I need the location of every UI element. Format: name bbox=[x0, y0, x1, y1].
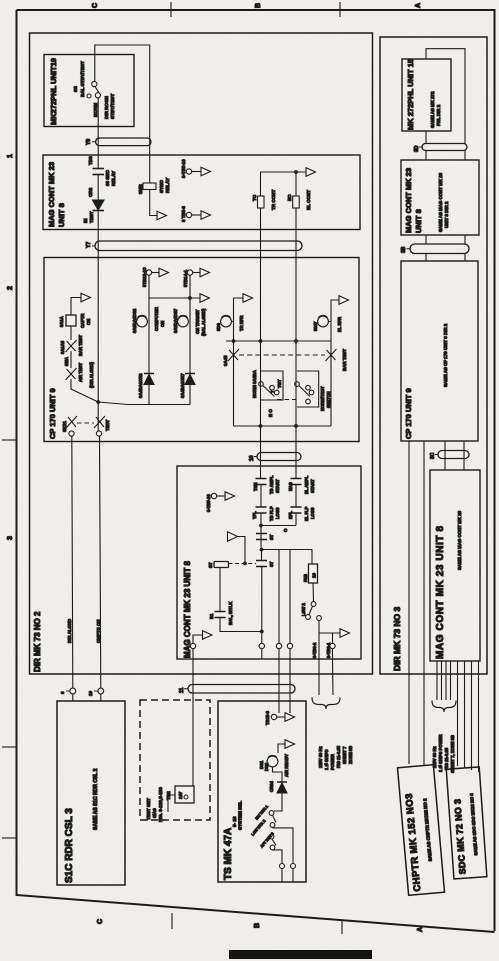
wire B1 to main bbox=[220, 618, 262, 632]
wire lamp bus 2 bbox=[226, 340, 331, 342]
connector oval 16 bbox=[257, 453, 301, 461]
svg-text:S1C RDR CSL 3: S1C RDR CSL 3 bbox=[64, 808, 75, 883]
svg-text:ON TARGET: ON TARGET bbox=[195, 309, 200, 334]
svg-text:ON: ON bbox=[160, 321, 165, 327]
connector oval 3B bbox=[410, 244, 469, 254]
svg-text:(BAL ALGND): (BAL ALGND) bbox=[201, 308, 206, 336]
switch SK21 pole 1 bbox=[66, 416, 77, 436]
svg-text:3A4BA1CR7: 3A4BA1CR7 bbox=[180, 373, 185, 398]
capacitor EFL bbox=[291, 507, 302, 513]
linkage dashed SK21 bbox=[77, 422, 94, 424]
terminal circle e + flag bbox=[190, 643, 195, 648]
svg-text:3MA: 3MA bbox=[64, 357, 69, 366]
wire EC down long bbox=[295, 208, 297, 341]
svg-text:SHEET 7, ZONE 3B: SHEET 7, ZONE 3B bbox=[450, 735, 455, 773]
wire lower bus to junction bbox=[98, 402, 190, 405]
terminal circle c bbox=[287, 643, 292, 648]
svg-text:8-TB5-10: 8-TB5-10 bbox=[206, 494, 211, 512]
flag arrow TR RFR bbox=[243, 294, 253, 303]
svg-text:3A3DA1DS7: 3A3DA1DS7 bbox=[173, 308, 178, 333]
svg-text:START: START bbox=[275, 479, 280, 493]
svg-text:3A1A: 3A1A bbox=[59, 316, 64, 327]
wire TC/EC bus bbox=[261, 172, 307, 196]
resistor TC bbox=[258, 196, 265, 208]
svg-text:(DIR ALGND): (DIR ALGND) bbox=[89, 361, 94, 388]
junction dot bus2-b bbox=[294, 339, 298, 343]
terminal circle 9 bbox=[70, 688, 76, 694]
box TS MK 47A bbox=[218, 701, 306, 882]
rotary switch NORM/TEST bbox=[295, 371, 319, 407]
junction dot TC/EC bbox=[294, 170, 298, 174]
wire flag to lamp bbox=[278, 744, 285, 753]
switch contact 3MA AIR TEST bbox=[66, 368, 77, 380]
svg-text:ST: ST bbox=[208, 562, 213, 568]
stubs into S1C box bbox=[73, 694, 101, 701]
svg-text:MK272PNL UNIT19: MK272PNL UNIT19 bbox=[49, 58, 58, 125]
svg-text:NORM: NORM bbox=[252, 385, 257, 398]
svg-text:115V 60 Hz: 115V 60 Hz bbox=[318, 746, 323, 768]
svg-text:TR CONT: TR CONT bbox=[271, 189, 276, 210]
stub circles b c to bottom bbox=[279, 649, 290, 701]
svg-text:UNIT 8: UNIT 8 bbox=[414, 209, 423, 233]
flag arrow (TC/EC bus) bbox=[306, 168, 316, 177]
dashed box TEST SET bbox=[140, 700, 210, 820]
flag arrow 8-TB5-8 bbox=[201, 211, 211, 220]
lamp 3A3DA1DS7 ON TARGET bbox=[178, 315, 189, 326]
svg-text:8-TB5-10: 8-TB5-10 bbox=[181, 159, 186, 178]
svg-text:FIG 11-3.35: FIG 11-3.35 bbox=[444, 747, 449, 770]
svg-text:3MR: 3MR bbox=[138, 184, 143, 194]
svg-text:TR RFR: TR RFR bbox=[239, 316, 244, 331]
junction dot main wire bbox=[96, 400, 100, 404]
border tick left 3 bbox=[2, 837, 17, 839]
svg-text:107: 107 bbox=[178, 791, 183, 799]
svg-text:EFL: EFL bbox=[288, 511, 293, 519]
flag arrow ST bbox=[228, 532, 238, 542]
wire TR RFR branch bbox=[234, 298, 244, 341]
svg-text:SAME AS MK 272: SAME AS MK 272 bbox=[430, 91, 435, 128]
wire F1B branch bus bbox=[262, 550, 313, 644]
svg-text:AIR TEST: AIR TEST bbox=[78, 362, 83, 382]
svg-text:CMPTR ON: CMPTR ON bbox=[96, 620, 101, 643]
svg-text:8-TB6-2: 8-TB6-2 bbox=[312, 642, 317, 658]
wires MAG CONT right bottom to SDC bbox=[458, 661, 479, 772]
junction dot bus3-a bbox=[259, 424, 263, 428]
svg-text:EL FLP: EL FLP bbox=[304, 506, 309, 521]
wire to flag bbox=[192, 171, 201, 173]
diode 3A4BA1CR7 bbox=[185, 374, 195, 385]
wires CP170 right down to CHPTR bbox=[409, 441, 424, 765]
capacitor EAS bbox=[291, 479, 302, 485]
svg-text:MAG CONT MK 23 UNIT 8: MAG CONT MK 23 UNIT 8 bbox=[183, 561, 192, 658]
svg-text:DIR MK 73 NO 3: DIR MK 73 NO 3 bbox=[392, 606, 402, 671]
capacitor ST 2 bbox=[256, 561, 267, 567]
border tick left 1 bbox=[2, 439, 16, 441]
svg-text:CR24: CR24 bbox=[269, 781, 274, 792]
svg-text:TC: TC bbox=[252, 194, 257, 201]
svg-text:60 SEC: 60 SEC bbox=[105, 169, 110, 186]
flag arrow lamp bus bbox=[200, 294, 210, 303]
wire from box 107 bbox=[168, 795, 175, 812]
wire loop above MK272PHL bbox=[426, 49, 465, 144]
stubs to TS box bottom bbox=[282, 869, 293, 883]
svg-text:EAS: EAS bbox=[288, 482, 293, 491]
svg-text:SAME AS MAG CONT MK 23: SAME AS MAG CONT MK 23 bbox=[457, 510, 462, 570]
svg-text:NORM: NORM bbox=[93, 103, 98, 117]
selector switch contacts bbox=[269, 811, 276, 850]
switch LSW 2 bbox=[306, 602, 322, 621]
svg-text:3B: 3B bbox=[401, 246, 407, 253]
capacitor ST 1 bbox=[256, 534, 267, 540]
dashed link ST bbox=[229, 563, 257, 565]
diode CR24 bbox=[277, 782, 287, 793]
wire computer-on branch bbox=[148, 298, 150, 373]
capacitor TFL bbox=[256, 507, 267, 513]
svg-text:RELAY: RELAY bbox=[165, 178, 170, 193]
terminal circle 5TB14-1 bbox=[187, 270, 192, 275]
capacitor TNE bbox=[256, 479, 267, 485]
lamp 5967 EL RFR bbox=[318, 315, 331, 326]
box MK 272PHL UNIT 15 bbox=[402, 59, 451, 131]
wire diode CR7 to bus bbox=[189, 385, 191, 405]
wire diode to selector bbox=[274, 794, 282, 812]
svg-text:9: 9 bbox=[60, 691, 65, 694]
svg-text:COMPUTER: COMPUTER bbox=[154, 307, 159, 331]
box SDC MK 72 NO 3 bbox=[446, 767, 487, 879]
border tick bottom 2 bbox=[341, 920, 343, 934]
wire 3A45 down bbox=[233, 341, 235, 426]
lamp 9D6 TR RFR bbox=[221, 315, 234, 326]
svg-text:BAR TEST: BAR TEST bbox=[78, 335, 83, 356]
border tick top 1 bbox=[170, 2, 172, 17]
svg-text:CP 170 UNIT 9: CP 170 UNIT 9 bbox=[48, 388, 57, 439]
border tick left 2 bbox=[2, 746, 17, 748]
svg-text:UNIT 8: UNIT 8 bbox=[57, 203, 66, 227]
svg-text:10: 10 bbox=[88, 690, 93, 696]
svg-text:TB AMPL: TB AMPL bbox=[269, 475, 274, 494]
wire from switch S3 to right loop bbox=[95, 45, 150, 183]
svg-text:T: T bbox=[270, 390, 275, 393]
connector oval Y7 bbox=[95, 241, 302, 251]
terminal circle + flag 8-TB5-10 (center box) bbox=[211, 493, 216, 498]
svg-text:TEST SET: TEST SET bbox=[146, 798, 151, 820]
wire ST resistor to B1 bbox=[219, 568, 221, 612]
wires CP170 right to oval 3C bbox=[445, 441, 464, 470]
svg-text:TEST: TEST bbox=[105, 419, 110, 431]
svg-text:LSW 2: LSW 2 bbox=[301, 603, 306, 616]
svg-text:TB3: TB3 bbox=[88, 156, 93, 165]
svg-text:SHEET 7: SHEET 7 bbox=[342, 746, 347, 764]
svg-text:MAG CONT MK 23: MAG CONT MK 23 bbox=[404, 168, 413, 233]
svg-text:10: 10 bbox=[312, 572, 317, 578]
wires MAG CONT to 3B bbox=[426, 235, 465, 261]
svg-text:B1: B1 bbox=[209, 613, 214, 619]
svg-text:MAG CONT MK 23: MAG CONT MK 23 bbox=[47, 162, 56, 227]
svg-text:DS2: DS2 bbox=[264, 762, 269, 771]
svg-text:3A1A5: 3A1A5 bbox=[60, 340, 65, 354]
svg-text:UNIT 8 DIR 2: UNIT 8 DIR 2 bbox=[444, 201, 449, 228]
capacitor TB3 bbox=[93, 169, 105, 175]
svg-text:RELAY: RELAY bbox=[111, 171, 116, 186]
switch S3 bbox=[87, 81, 101, 98]
diode CR2 bbox=[93, 200, 105, 211]
svg-text:6/A6: 6/A6 bbox=[152, 808, 157, 818]
diode 3A4BA1CR2 bbox=[144, 374, 154, 385]
flag arrow 5TB13-10 bbox=[159, 268, 169, 277]
resistor 3A1A bbox=[66, 315, 76, 326]
brace 115V ships power right bbox=[432, 701, 456, 713]
terminal circle 8-TB5-10 (top box) bbox=[186, 169, 191, 174]
resistor ST bbox=[214, 562, 229, 568]
box S1C RDR CSL 3 bbox=[57, 701, 125, 885]
svg-text:DIR MK 73 NO 2: DIR MK 73 NO 2 bbox=[33, 611, 42, 672]
switch contact 3A1A5 BAR TEST bbox=[66, 340, 77, 352]
svg-text:TS MK 47A: TS MK 47A bbox=[223, 828, 234, 880]
svg-text:5TB13-10: 5TB13-10 bbox=[142, 267, 147, 287]
border tick bottom 1 bbox=[171, 913, 173, 929]
wire on-target branch bbox=[189, 298, 191, 373]
flag arrow captr bbox=[81, 293, 91, 302]
capacitor B1 bbox=[215, 612, 226, 618]
border tick top 2 bbox=[339, 2, 341, 17]
svg-text:SYSTEM SEL: SYSTEM SEL bbox=[238, 801, 243, 830]
svg-text:A: A bbox=[417, 927, 424, 932]
svg-text:TEST: TEST bbox=[89, 211, 94, 223]
box MAG CONT MK 23 UNIT 8 (right top) bbox=[401, 160, 479, 235]
box MK272PNL UNIT19 bbox=[44, 55, 134, 127]
wire bottom bus bbox=[234, 425, 332, 427]
svg-text:EC: EC bbox=[287, 194, 292, 201]
svg-text:E O: E O bbox=[268, 409, 273, 417]
resistor EC bbox=[293, 196, 300, 208]
switch contact 3A45 bbox=[228, 349, 239, 361]
wire EL branch into center box bbox=[295, 426, 297, 526]
wire C junction bbox=[261, 525, 296, 527]
box DIR MK 73 NO 2 bbox=[30, 33, 373, 674]
wire F1B to LSW2 bbox=[312, 583, 315, 602]
wire circle e down to test set bbox=[192, 649, 194, 786]
svg-text:F1B: F1B bbox=[303, 574, 308, 582]
connector oval Y9 bbox=[96, 138, 151, 146]
svg-text:2: 2 bbox=[7, 286, 14, 290]
svg-text:SYNC: SYNC bbox=[159, 180, 164, 193]
wire to resistor 3A1A bbox=[70, 326, 72, 340]
svg-text:MAG CONT MK 23 UNIT 8: MAG CONT MK 23 UNIT 8 bbox=[435, 525, 446, 659]
svg-text:3C: 3C bbox=[430, 452, 436, 459]
svg-text:ON: ON bbox=[86, 319, 91, 325]
wire to flag bbox=[193, 272, 200, 274]
rotary switch 3A1BA bbox=[259, 371, 283, 400]
svg-text:TB FLP: TB FLP bbox=[269, 506, 274, 521]
lamp 3A3DA1DS2 COMPUTER ON bbox=[137, 315, 148, 326]
box CHPTR MK 152 NO3 bbox=[397, 765, 444, 896]
ships power wires right bbox=[437, 661, 451, 700]
svg-text:START: START bbox=[310, 479, 315, 493]
junction dot dashed bbox=[243, 562, 247, 566]
flag terminal arrow bbox=[157, 211, 167, 220]
junction dot lamp bus bbox=[188, 296, 192, 300]
svg-text:SK21: SK21 bbox=[62, 420, 67, 432]
wire to flag bbox=[152, 272, 159, 274]
junction dot bus3-b bbox=[294, 424, 298, 428]
brace 115V ships power left bbox=[312, 698, 340, 710]
wire rotary A common bbox=[260, 341, 262, 426]
wire dashed-dot to flag bbox=[238, 537, 246, 564]
svg-text:ST: ST bbox=[269, 534, 274, 540]
wire selector to terminals bbox=[273, 828, 294, 863]
svg-text:AIR READY: AIR READY bbox=[284, 754, 289, 777]
box CP 170 UNIT 9 (right) bbox=[401, 261, 478, 441]
svg-text:3A1BA: 3A1BA bbox=[252, 370, 257, 384]
svg-text:C: C bbox=[97, 919, 104, 924]
svg-text:FIG. 3-129,3-130: FIG. 3-129,3-130 bbox=[158, 787, 163, 822]
svg-text:C: C bbox=[92, 3, 99, 8]
junction dot C bbox=[259, 524, 263, 528]
svg-text:PNL DIR 2: PNL DIR 2 bbox=[436, 104, 441, 126]
svg-text:S3: S3 bbox=[73, 86, 78, 92]
svg-text:CP 170 UNIT 9: CP 170 UNIT 9 bbox=[404, 388, 413, 439]
svg-text:EL CONT: EL CONT bbox=[306, 190, 311, 210]
wire sync relay to flag bbox=[150, 190, 157, 216]
svg-text:5TB14-1: 5TB14-1 bbox=[183, 269, 188, 287]
wire CMPTR ON bbox=[100, 436, 101, 688]
wire DIR ALGND bbox=[72, 436, 73, 688]
switch contact BAR TEST bbox=[326, 349, 337, 361]
wire EL RFR branch bbox=[331, 300, 339, 341]
junction dot branch bbox=[260, 548, 264, 552]
terminal circle d bbox=[330, 643, 335, 648]
stub wires into TS box bbox=[279, 701, 290, 713]
wire resistor to flag bbox=[71, 298, 81, 316]
connector box 107 bbox=[175, 786, 194, 803]
terminal circle 5TB13-10 bbox=[146, 270, 151, 275]
svg-text:FIG 11-3.35: FIG 11-3.35 bbox=[336, 745, 341, 768]
box MAG CONT MK 23 UNIT 8 (top) bbox=[43, 155, 360, 230]
mechanical linkage dashed 2 bbox=[277, 399, 297, 401]
svg-text:ST: ST bbox=[269, 561, 274, 567]
svg-text:DIR ALGND: DIR ALGND bbox=[67, 619, 72, 643]
svg-text:Y9: Y9 bbox=[86, 139, 92, 145]
flag arrow 2 in TS box bbox=[285, 740, 295, 749]
svg-text:3A4BA1CR2: 3A4BA1CR2 bbox=[138, 373, 143, 398]
wire diode CR2 to bus bbox=[148, 385, 150, 405]
svg-text:NORM/TEST: NORM/TEST bbox=[320, 386, 325, 411]
svg-text:1 Ø SHIPS: 1 Ø SHIPS bbox=[324, 749, 329, 770]
wire rotary B common bbox=[295, 341, 297, 426]
wire to flag bbox=[192, 214, 201, 216]
flag TB15-3 in TS box bbox=[271, 714, 276, 719]
terminal circle 10 bbox=[98, 688, 104, 694]
scan artifact black bar bbox=[229, 950, 372, 959]
switch SK21 pole 2 bbox=[94, 416, 105, 436]
box MAG CONT MK 23 UNIT 8 (center) bbox=[177, 466, 361, 659]
connector oval 3D bbox=[422, 144, 467, 151]
resistor F1B bbox=[309, 564, 318, 583]
svg-text:LOSS: LOSS bbox=[275, 507, 280, 519]
resistor 3MR sync relay coil bbox=[143, 183, 156, 190]
svg-text:9D6: 9D6 bbox=[216, 323, 221, 331]
stub below circle d bbox=[332, 649, 335, 695]
wire TB branch into center box bbox=[261, 426, 262, 643]
svg-text:TB15-3: TB15-3 bbox=[265, 710, 270, 725]
wire lamp to diode bbox=[273, 767, 283, 782]
svg-text:A: A bbox=[415, 3, 422, 8]
lamp DS1 DS2 AIR READY bbox=[267, 755, 278, 766]
svg-text:5- 13: 5- 13 bbox=[232, 816, 237, 827]
flag arrow 8-TB5-10 bbox=[201, 167, 211, 176]
svg-text:8-TB6-1: 8-TB6-1 bbox=[326, 642, 331, 658]
box CP 170 UNIT 9 bbox=[44, 258, 359, 442]
flag arrow EL RFR bbox=[339, 296, 349, 305]
connector oval 11 bbox=[188, 685, 295, 694]
svg-text:BAL STBY/TEST: BAL STBY/TEST bbox=[80, 61, 85, 97]
svg-text:SWITCH: SWITCH bbox=[326, 391, 331, 408]
wire TC down long bbox=[260, 208, 262, 341]
wire BAR TEST down bbox=[330, 341, 332, 426]
junction dot TR branch bbox=[232, 339, 236, 343]
box DIR MK 73 NO 3 bbox=[380, 37, 487, 674]
wire lamp bus bbox=[149, 275, 200, 298]
svg-text:TFL: TFL bbox=[252, 511, 257, 519]
mechanical linkage dashed bbox=[239, 354, 325, 356]
svg-text:1: 1 bbox=[7, 154, 14, 158]
svg-text:SAME AS MAG CONT MK 23: SAME AS MAG CONT MK 23 bbox=[438, 172, 443, 232]
stub to box bottom bbox=[261, 649, 263, 659]
svg-text:5967: 5967 bbox=[313, 321, 318, 331]
label lead dashes bbox=[66, 142, 438, 691]
wire LSW2 out bbox=[319, 620, 340, 695]
terminal circle TS b bbox=[291, 864, 296, 869]
svg-text:3D: 3D bbox=[414, 145, 420, 152]
wire TB3 to CR2 bbox=[97, 175, 99, 201]
svg-text:B: B bbox=[255, 3, 262, 8]
svg-text:8 TB5-8: 8 TB5-8 bbox=[181, 206, 186, 222]
terminal circle 8-TB5-8 bbox=[186, 212, 191, 217]
svg-text:EL RFR: EL RFR bbox=[337, 317, 342, 332]
terminal circle b bbox=[276, 643, 281, 648]
connector oval 3C bbox=[438, 451, 469, 459]
box MAG CONT MK 23 UNIT 8 (right bottom) bbox=[430, 470, 480, 661]
svg-text:3: 3 bbox=[7, 536, 14, 540]
svg-text:SAME AS CP 170 UNIT 9 DIR 2: SAME AS CP 170 UNIT 9 DIR 2 bbox=[443, 323, 448, 387]
wire air-test branch diagonal bbox=[71, 379, 98, 402]
svg-text:3A45: 3A45 bbox=[223, 355, 228, 366]
junction dot B1 join bbox=[260, 630, 264, 634]
svg-text:IN: IN bbox=[83, 218, 88, 223]
svg-text:B: B bbox=[254, 923, 261, 928]
svg-text:POWER: POWER bbox=[330, 754, 335, 770]
svg-text:ZONE 3B: ZONE 3B bbox=[348, 746, 353, 764]
wires 3D to MAG CONT bbox=[426, 151, 465, 161]
svg-text:Y7: Y7 bbox=[86, 242, 92, 248]
svg-text:STBY/TEST: STBY/TEST bbox=[110, 94, 115, 119]
svg-text:BAR TEST: BAR TEST bbox=[342, 349, 347, 371]
svg-text:MK 272PHL UNIT 15: MK 272PHL UNIT 15 bbox=[406, 59, 415, 130]
svg-text:TGT: TGT bbox=[277, 379, 282, 388]
svg-text:1 Ø SHIPS POWER: 1 Ø SHIPS POWER bbox=[438, 735, 443, 772]
flag arrow TB6 bbox=[340, 629, 350, 638]
svg-text:LOSS: LOSS bbox=[310, 507, 315, 519]
wire to BAR TEST contact bbox=[70, 351, 72, 368]
svg-text:TNE: TNE bbox=[253, 482, 258, 491]
svg-text:CAPTR: CAPTR bbox=[80, 314, 85, 328]
junction dot bus2-a bbox=[259, 339, 263, 343]
terminal circle TS a bbox=[280, 864, 285, 869]
svg-text:EL AMPL: EL AMPL bbox=[304, 475, 309, 494]
wire from S3 lower contact down bbox=[97, 98, 99, 168]
flag arrow 5TB14-1 bbox=[200, 268, 210, 277]
terminal circle main bbox=[259, 643, 264, 648]
